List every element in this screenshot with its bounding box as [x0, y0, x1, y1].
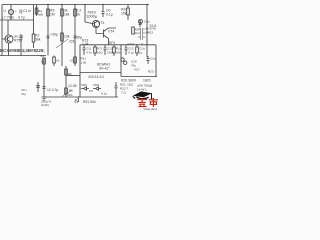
capacitor C11 — [83, 45, 86, 55]
capacitor C17 — [36, 86, 40, 88]
potentiometer R6 arrow — [62, 90, 72, 97]
wire input box bottom — [0, 19, 34, 21]
wire vertical x156 — [155, 45, 157, 77]
transistor VT1 — [5, 35, 13, 43]
wire vertical x48 — [47, 5, 49, 56]
svg-text:34–42°: 34–42° — [99, 67, 110, 71]
svg-text:47μ: 47μ — [21, 92, 26, 96]
wire mid bus — [80, 44, 156, 46]
svg-text:0.1μ: 0.1μ — [128, 51, 134, 55]
svg-text:VT4: VT4 — [108, 30, 114, 34]
svg-text:1820: 1820 — [143, 78, 151, 82]
wire vertical x85 — [84, 5, 86, 23]
node dots on top bus — [47, 4, 148, 6]
resistor R17 — [132, 27, 135, 34]
svg-text:7 Ω: 7 Ω — [121, 90, 127, 94]
logo red character 1 — [137, 98, 147, 107]
svg-text:1k: 1k — [41, 60, 45, 64]
microphone B1 — [8, 9, 13, 14]
svg-text:1000μ: 1000μ — [86, 14, 98, 19]
resistor R5 — [47, 9, 50, 16]
svg-text:15k: 15k — [121, 12, 127, 16]
svg-text:(0.2F): (0.2F) — [41, 103, 49, 107]
capacitor C8 — [43, 87, 46, 89]
potentiometer RP1 arrow — [56, 39, 68, 48]
svg-text:45°4: 45°4 — [108, 41, 115, 45]
svg-text:VD8: VD8 — [93, 83, 99, 87]
svg-text:56k: 56k — [35, 38, 41, 42]
svg-text:2CK14.2•J: 2CK14.2•J — [88, 75, 104, 79]
resistor R11 — [74, 57, 77, 63]
diode VD6 — [81, 87, 89, 90]
capacitor C6 — [102, 12, 105, 18]
svg-text:+: + — [15, 9, 17, 13]
transformer T1 — [138, 28, 146, 40]
wire vertical x121 block right — [120, 45, 122, 77]
svg-text:200↓: 200↓ — [67, 93, 74, 97]
svg-text:V1*: V1* — [74, 100, 80, 104]
svg-text:T: T — [141, 43, 143, 47]
wire bottom bus — [44, 96, 118, 98]
wire vertical x103 — [102, 5, 104, 12]
svg-text:+30μ: +30μ — [50, 33, 58, 37]
wire left edge vertical — [1, 5, 3, 56]
svg-text:R9: R9 — [41, 54, 45, 58]
svg-text:BCX8BCX8≤4B·#8804;4BBCX8≤4B·#8: BCX8BCX8≤4B·#8804;4BBCX8≤4B·#8226; — [0, 48, 45, 53]
svg-text:1.5k: 1.5k — [81, 61, 87, 65]
svg-text:C9: C9 — [89, 89, 93, 93]
diode VD4 circle pair — [121, 58, 124, 61]
resistor R4 — [61, 33, 64, 41]
wire lower mid bus — [80, 72, 121, 74]
wire vertical x62 — [61, 5, 63, 67]
svg-text:R6: R6 — [69, 89, 73, 93]
svg-text:VD6: VD6 — [81, 83, 87, 87]
resistor R8 — [61, 9, 64, 16]
capacitor C16 — [115, 82, 118, 97]
svg-text:22k: 22k — [69, 40, 75, 44]
svg-text:1000: 1000 — [107, 51, 114, 55]
svg-text:1k: 1k — [135, 31, 139, 35]
svg-text:R51 50n: R51 50n — [83, 100, 96, 104]
svg-text:12 4.7μ: 12 4.7μ — [47, 88, 58, 92]
wire vertical x75 — [74, 5, 76, 67]
svg-text:1±*W·L: 1±*W·L — [137, 88, 147, 92]
resistor R14 — [94, 47, 97, 53]
transistor VT5 — [139, 20, 143, 24]
capacitor C3 — [74, 36, 77, 38]
svg-text:R23: R23 — [148, 70, 154, 74]
wire stub y75 — [66, 75, 80, 77]
svg-text:www.dzsc: www.dzsc — [144, 107, 158, 110]
svg-text:B823: B823 — [146, 31, 153, 35]
diode VD8 — [93, 87, 101, 90]
wire mic stubs — [10, 5, 12, 21]
resistor R16 — [136, 47, 139, 53]
logo red character 2 — [149, 98, 158, 107]
resistor Rb — [65, 69, 68, 75]
wire vertical x147 — [146, 5, 148, 58]
capacitor C2 — [47, 36, 50, 38]
diode VD9 — [75, 96, 79, 102]
wire vertical x44 — [43, 58, 45, 97]
wire lower right bus — [121, 76, 157, 78]
svg-text:0.1μ: 0.1μ — [106, 13, 113, 17]
svg-text:1M: 1M — [50, 13, 55, 17]
svg-text:4.7μ: 4.7μ — [18, 16, 25, 20]
svg-text:1.4k: 1.4k — [82, 42, 89, 46]
logo graduation cap — [132, 91, 152, 99]
svg-text:Rb: Rb — [68, 73, 72, 77]
transistor VT3 — [92, 20, 99, 27]
resistor R1 — [36, 5, 38, 17]
wire vertical x80 block left — [79, 45, 81, 97]
wire lower-left bus — [0, 55, 46, 57]
resistor R2 — [32, 34, 35, 42]
wire vertical x128 — [127, 5, 129, 9]
svg-text:2.0s: 2.0s — [144, 20, 150, 24]
resistor R24 — [127, 8, 130, 15]
svg-text:50Ω: 50Ω — [116, 51, 122, 55]
svg-text:VC7: VC7 — [134, 68, 140, 72]
capacitor C7 — [139, 20, 142, 27]
capacitor C13 — [125, 45, 128, 55]
svg-text:10Ω: 10Ω — [97, 51, 103, 55]
svg-text:18k: 18k — [64, 13, 70, 17]
capacitor C4 — [20, 34, 23, 43]
capacitor C12 — [104, 45, 107, 55]
svg-text:a5k: a5k — [38, 13, 43, 17]
svg-text:10k: 10k — [70, 59, 75, 63]
svg-text:R75b: R75b — [14, 39, 22, 43]
wire vertical x66 lower — [65, 66, 67, 97]
resistor R15 — [113, 47, 116, 53]
svg-text:4.7μ: 4.7μ — [86, 51, 92, 55]
svg-text:1k: 1k — [77, 13, 81, 17]
svg-text:C1s: C1s — [150, 57, 156, 61]
capacitor C15 — [147, 56, 150, 64]
svg-text:0.1μ: 0.1μ — [101, 92, 107, 96]
svg-text:A1: A1 — [56, 59, 60, 63]
text labels — [0, 8, 156, 107]
svg-text:12.08: 12.08 — [68, 84, 77, 88]
wire VT1 stubs — [7, 20, 10, 56]
resistor R9 — [43, 58, 46, 64]
resistor R10 — [53, 57, 56, 63]
svg-text:VT3: VT3 — [98, 21, 104, 25]
ground symbol — [42, 97, 47, 100]
svg-text:10k: 10k — [64, 35, 70, 39]
transistor VT4 — [96, 28, 116, 45]
wire top supply bus — [2, 4, 149, 6]
svg-text:C1 m: C1 m — [23, 9, 31, 13]
svg-text:4.00s: 4.00s — [127, 42, 135, 46]
wire input box right vertical — [33, 5, 35, 21]
wire vertical x38 bottom stub — [37, 82, 39, 92]
wire C4 stubs — [20, 43, 22, 56]
svg-text:L7 790x: L7 790x — [2, 16, 14, 20]
resistor R3 — [74, 9, 77, 16]
resistor R6 body — [65, 88, 68, 94]
svg-text:1μ: 1μ — [139, 51, 143, 55]
svg-text:L1: L1 — [3, 9, 7, 13]
capacitor C1 plates — [20, 10, 22, 14]
